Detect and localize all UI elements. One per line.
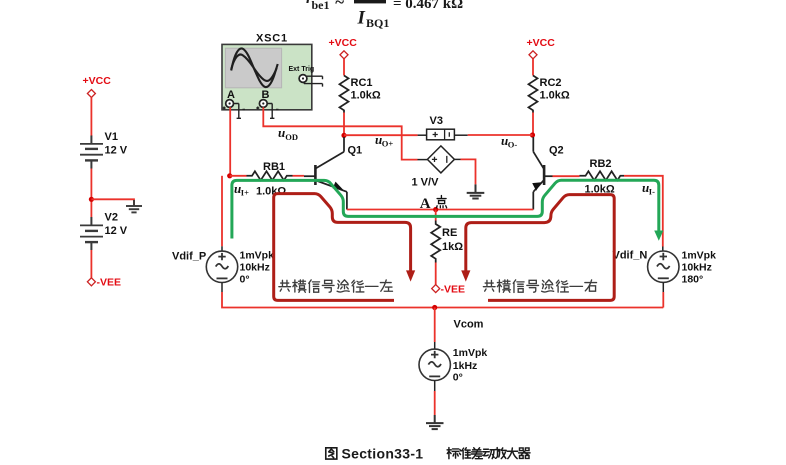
svg-text:be1: be1 bbox=[312, 0, 330, 12]
svg-text:O-: O- bbox=[508, 140, 518, 150]
svg-text:1.0kΩ: 1.0kΩ bbox=[256, 186, 286, 198]
caption: tu Section33-1 kanji title bbox=[326, 448, 337, 459]
scope input B connector bbox=[259, 100, 267, 108]
svg-text:Vdif_P: Vdif_P bbox=[172, 251, 206, 263]
svg-text:1.0kΩ: 1.0kΩ bbox=[540, 90, 570, 102]
svg-text:RB2: RB2 bbox=[590, 158, 612, 170]
green differential signal path bbox=[232, 180, 659, 238]
svg-text:1kHz: 1kHz bbox=[453, 360, 478, 372]
battery V2 bbox=[80, 217, 103, 250]
wire V1 to V2 bbox=[90, 169, 92, 218]
svg-text:1mVpk: 1mVpk bbox=[682, 250, 717, 262]
svg-text:1mVpk: 1mVpk bbox=[240, 250, 275, 262]
wire RC2 to Q2 collector node bbox=[532, 113, 534, 136]
svg-text:0°: 0° bbox=[453, 372, 463, 384]
maroon right arrowhead bbox=[461, 270, 470, 281]
svg-text:Q2: Q2 bbox=[549, 145, 564, 157]
node Q1 collector junction bbox=[341, 133, 346, 138]
wire scope A down to u_I+ node bbox=[229, 107, 231, 176]
wire RB1 to Q1 base bbox=[293, 175, 305, 177]
ground (Vcom) bbox=[426, 415, 444, 429]
svg-text:0°: 0° bbox=[240, 274, 250, 286]
wire RC1 to Q1 collector node bbox=[343, 113, 345, 136]
wire Vcom to ground bbox=[434, 391, 436, 415]
wire Vdif_P bottom to bottom rail bbox=[222, 292, 663, 308]
svg-text:RC2: RC2 bbox=[540, 77, 562, 89]
Q1 emitter arrow bbox=[333, 182, 344, 190]
svg-text:I: I bbox=[357, 8, 366, 29]
node +VCC connector diamond bbox=[87, 90, 95, 98]
wire V3 input to Q2 collector node bbox=[468, 134, 533, 136]
svg-text:Q1: Q1 bbox=[348, 145, 363, 157]
resistor RB1 bbox=[247, 171, 293, 180]
svg-text:180°: 180° bbox=[682, 274, 704, 286]
wire V3 diamond output right to ground bbox=[454, 158, 460, 160]
svg-text:≈: ≈ bbox=[335, 0, 344, 10]
node A junction dot bbox=[433, 207, 438, 212]
transistor Q2 bbox=[533, 137, 552, 210]
ground (mid rail) bbox=[126, 200, 142, 212]
svg-text:-VEE: -VEE bbox=[441, 284, 466, 296]
node bottom rail junction bbox=[432, 305, 437, 310]
node Q2 collector junction bbox=[530, 132, 535, 137]
scope waveform bbox=[231, 48, 278, 87]
node junction dot bbox=[89, 197, 94, 202]
node +VCC connector diamond (RC1) bbox=[340, 51, 348, 59]
ground (V3) bbox=[467, 184, 485, 198]
svg-text:I-: I- bbox=[649, 187, 655, 197]
node u_I+ junction dot bbox=[227, 173, 232, 178]
wire scope B down and right to V3 output bbox=[263, 107, 417, 159]
svg-text:Ext Trig: Ext Trig bbox=[289, 66, 315, 73]
wire emitter line (A node) bbox=[347, 209, 533, 211]
svg-text:BQ1: BQ1 bbox=[366, 16, 389, 30]
svg-text:O+: O+ bbox=[382, 139, 394, 149]
maroon common-mode path right bbox=[466, 195, 614, 301]
svg-text:-VEE: -VEE bbox=[97, 277, 122, 289]
scope input A connector bbox=[226, 100, 234, 108]
node +VCC connector diamond (RC2) bbox=[529, 51, 537, 59]
svg-text:Section33-1: Section33-1 bbox=[342, 446, 424, 462]
svg-text:V1: V1 bbox=[105, 131, 118, 143]
svg-text:1 V/V: 1 V/V bbox=[412, 177, 440, 189]
text common-mode path right (kanji) bbox=[483, 280, 596, 293]
wire +VCC to RC1 bbox=[343, 59, 345, 76]
maroon common-mode path left bbox=[274, 194, 411, 301]
svg-text:+VCC: +VCC bbox=[83, 75, 112, 87]
svg-text:RC1: RC1 bbox=[351, 77, 373, 89]
svg-text:1kΩ: 1kΩ bbox=[442, 241, 463, 253]
svg-text:XSC1: XSC1 bbox=[256, 33, 288, 45]
wire RB2 right to Vdif_N bbox=[624, 176, 663, 247]
wire +VCC to RC2 bbox=[532, 59, 534, 76]
green arrowhead at Vdif_N bbox=[654, 231, 663, 241]
scope screen bbox=[225, 48, 281, 88]
svg-text:Vdif_N: Vdif_N bbox=[613, 250, 648, 262]
svg-text:+VCC: +VCC bbox=[329, 37, 358, 49]
svg-text:RB1: RB1 bbox=[263, 161, 285, 173]
battery V1 bbox=[80, 136, 103, 169]
ext trig connector bbox=[299, 75, 307, 83]
svg-text:u: u bbox=[278, 125, 285, 140]
wire RE to -VEE bbox=[435, 263, 437, 285]
resistor RC1 bbox=[340, 76, 349, 113]
wire V2 to -VEE bbox=[90, 250, 92, 278]
svg-text:1.0kΩ: 1.0kΩ bbox=[351, 90, 381, 102]
resistor RE bbox=[431, 221, 440, 263]
wire Q2 base to RB2 bbox=[553, 175, 580, 177]
svg-text:I+: I+ bbox=[241, 188, 249, 198]
resistor RC2 bbox=[529, 76, 538, 113]
svg-text:V3: V3 bbox=[430, 115, 443, 127]
source Vdif_N bbox=[662, 247, 664, 252]
wire +VCC to V1 bbox=[90, 98, 92, 137]
svg-text:RE: RE bbox=[442, 227, 457, 239]
wire to ground bbox=[91, 199, 134, 205]
node -VEE connector diamond (RE) bbox=[432, 285, 440, 293]
scope terminal stubs bbox=[223, 104, 279, 119]
source Vcom bbox=[434, 308, 436, 343]
svg-text:OD: OD bbox=[285, 132, 298, 142]
svg-text:12 V: 12 V bbox=[105, 145, 128, 157]
svg-text:Vcom: Vcom bbox=[454, 319, 484, 331]
svg-text:1mVpk: 1mVpk bbox=[453, 347, 488, 359]
node -VEE connector diamond bbox=[87, 278, 95, 286]
VCVS V3 input block bbox=[418, 134, 427, 136]
text common-mode path left (kanji) bbox=[279, 280, 393, 293]
maroon left arrowhead bbox=[406, 270, 415, 281]
formula r_be1 = Ube/IBQ1 (cropped at top) bbox=[306, 0, 463, 30]
wire u_I+ node to RB1 bbox=[230, 175, 247, 177]
resistor RB2 bbox=[580, 171, 625, 180]
svg-text:V2: V2 bbox=[105, 212, 118, 224]
wire Q1 collector node to V3 input bbox=[344, 134, 418, 136]
transistor Q1 bbox=[304, 137, 347, 210]
VCVS V3 diamond source bbox=[418, 159, 428, 161]
Q2 emitter arrow bbox=[532, 182, 541, 190]
svg-text:12 V: 12 V bbox=[105, 225, 128, 237]
svg-text:10kHz: 10kHz bbox=[240, 262, 270, 274]
svg-text:A: A bbox=[420, 196, 431, 212]
svg-text:= 0.467 kΩ: = 0.467 kΩ bbox=[393, 0, 463, 12]
wire A node to RE bbox=[435, 210, 437, 221]
svg-text:+VCC: +VCC bbox=[527, 37, 556, 49]
svg-text:10kHz: 10kHz bbox=[682, 262, 712, 274]
source Vdif_P bbox=[221, 176, 223, 247]
